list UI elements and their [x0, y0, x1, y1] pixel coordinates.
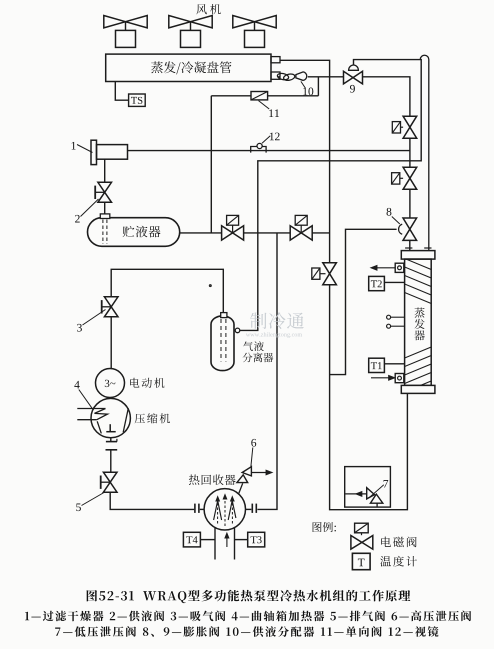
solenoid valve S2 — [403, 167, 417, 178]
evaporator bottom cap — [401, 385, 435, 393]
solenoid valve C on loop — [323, 263, 337, 274]
mid port upper — [387, 315, 391, 319]
fan 1 stem wire — [125, 22, 127, 31]
check valve 11 — [251, 92, 268, 100]
wire B to loop — [312, 232, 329, 234]
suction valve 3 — [104, 297, 118, 307]
separator label line1 气液 — [243, 341, 264, 351]
label 1 — [72, 142, 76, 150]
fan 2 propeller — [169, 16, 191, 28]
water out arrow — [375, 267, 395, 269]
motor 电动机 — [96, 369, 125, 398]
fan 3 motor box — [245, 30, 265, 47]
separator label line2 分离器 — [243, 353, 274, 363]
crankcase heater 4 — [77, 408, 105, 410]
relief valve 7 — [367, 488, 375, 499]
heat recovery label — [189, 474, 236, 485]
braided hose — [277, 72, 289, 80]
caption line 3 — [55, 626, 438, 637]
filter dryer 1 — [91, 140, 97, 164]
separator dip tube — [220, 319, 222, 362]
wire filter dryer to valve 2 — [104, 159, 106, 182]
watermark — [250, 312, 304, 329]
wire T2 to evaporator — [384, 281, 404, 283]
wire S2 to valve 8 — [409, 189, 411, 218]
compressor internals — [123, 408, 128, 432]
solenoid valve A — [222, 226, 233, 240]
heat recovery right flange — [246, 508, 252, 510]
gas-liquid separator vessel 气液分离器 — [211, 316, 234, 371]
legend solenoid label 电磁阀 — [381, 537, 416, 548]
label 9 — [350, 85, 355, 93]
wire A to B — [244, 232, 291, 234]
water in arrow — [371, 377, 389, 379]
wire separator to valve 3 — [111, 269, 223, 312]
water port box bottom — [395, 374, 404, 383]
T3 box — [248, 532, 265, 547]
fan label 风机 — [196, 4, 220, 14]
mid port lower — [387, 324, 391, 328]
fan 2 stem wire — [190, 22, 192, 31]
distributor 10 cone — [296, 72, 307, 81]
wire valve 5 to heat recovery — [110, 492, 194, 509]
wire discharge riser x277 — [257, 233, 277, 510]
wire S1 to S2 — [409, 138, 411, 167]
solenoid valve B — [290, 226, 301, 240]
fan 1 motor box — [116, 30, 136, 47]
compressor 压缩机 — [91, 398, 130, 437]
coil label — [151, 61, 231, 74]
wire distributor to valve 9 — [308, 76, 344, 78]
T1 box — [369, 358, 385, 372]
TS label — [131, 97, 142, 104]
supply valve 2 — [98, 182, 112, 192]
motor label — [130, 378, 164, 388]
wire hook (external) line to evaporator top right — [420, 55, 429, 250]
T2 box — [369, 276, 385, 290]
label 10 — [303, 88, 313, 96]
wire coil top tab to loop (suction main) — [280, 60, 330, 263]
wire compressor discharge — [110, 438, 112, 441]
evaporator/condenser coil 蒸发/冷凝盘管 — [106, 54, 271, 81]
wire check-valve riser — [317, 77, 319, 96]
separator equalizer nub — [235, 328, 240, 333]
T4 box — [183, 532, 200, 547]
solenoid valve S1 — [403, 116, 417, 127]
wire T3 to pipe — [235, 539, 248, 541]
label 11 — [269, 109, 279, 117]
wire check valve to distributor line — [268, 95, 319, 97]
compressor label — [135, 413, 170, 423]
legend solenoid symbol — [355, 523, 369, 533]
evaporator top cap — [401, 251, 435, 260]
legend thermometer box — [352, 553, 370, 569]
expansion valve 8 — [403, 218, 417, 229]
fan 1 propeller — [104, 16, 126, 28]
label 7 — [384, 480, 389, 488]
relief valve 6 — [239, 483, 243, 493]
legend title 图例 — [313, 522, 336, 532]
TS sensor box — [129, 94, 146, 106]
expansion valve 9 — [344, 71, 354, 84]
water flow arrow — [226, 537, 228, 548]
speck — [209, 285, 211, 287]
wire equalizer: valve9 dome to separator nub — [240, 60, 421, 331]
water pipe left — [214, 528, 216, 560]
wire valve 8 outlet to evaporator — [409, 240, 411, 250]
wire loop lower + U around box to evaporator bottom — [330, 285, 408, 510]
wire liquid line A (filter dryer to right riser) — [128, 150, 410, 152]
wire receiver outlet — [180, 232, 222, 234]
heat recovery left flange — [194, 504, 196, 513]
label 4 — [74, 381, 79, 389]
wire T4 to pipe — [200, 539, 215, 541]
wire coil to TS — [115, 82, 128, 101]
fan 2 motor box — [181, 30, 201, 47]
wire coupling to valve 5 — [110, 450, 112, 472]
legend thermometer label 温度计 — [380, 556, 417, 567]
heat recovery 热回收器 — [204, 489, 245, 530]
sight glass 12 — [251, 147, 266, 153]
water pipe right — [234, 528, 236, 560]
fan 3 propeller — [233, 16, 255, 28]
coil top-right tab — [271, 57, 280, 63]
label 6 — [251, 439, 256, 447]
evaporator label — [414, 308, 424, 318]
wire loop to valve 8 feed — [330, 229, 397, 374]
water port box top — [395, 263, 404, 272]
discharge valve 5 — [103, 472, 117, 482]
caption title — [87, 590, 411, 603]
evaporator body 蒸发器 — [405, 259, 432, 385]
pressure vessel box — [345, 467, 391, 508]
label 3 — [77, 324, 82, 332]
coil bottom-right tab — [271, 72, 280, 79]
wire T1 to evaporator — [384, 363, 404, 365]
label 2 — [75, 215, 80, 223]
evaporator hatching — [405, 259, 432, 393]
wire valve 3 to motor — [110, 317, 112, 369]
wire valve 9 to solenoid S1 — [363, 77, 410, 116]
heat recovery coil marks — [217, 499, 219, 525]
wire valve 2 to receiver — [104, 202, 106, 214]
wire coil bottom tab to distributor — [278, 76, 280, 78]
receiver label — [123, 226, 161, 238]
caption line 2 — [25, 611, 471, 622]
wire receiver riser to check valve — [210, 96, 212, 233]
label 8 — [387, 208, 392, 216]
separator dip tube cap — [221, 313, 227, 318]
receiver 贮液器 vessel — [88, 218, 180, 247]
label 5 — [76, 503, 81, 511]
discharge coupling — [106, 441, 117, 443]
fan 3 stem wire — [254, 22, 256, 31]
label 12 — [270, 133, 280, 141]
